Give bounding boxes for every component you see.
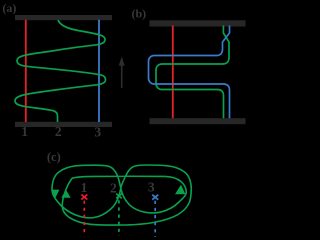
svg-text:2: 2 <box>55 124 62 139</box>
svg-text:(b): (b) <box>131 6 146 20</box>
svg-text:3: 3 <box>94 125 101 140</box>
svg-text:1: 1 <box>81 180 88 195</box>
svg-text:3: 3 <box>148 180 155 195</box>
svg-text:2: 2 <box>110 181 117 196</box>
svg-text:1: 1 <box>21 124 28 139</box>
svg-text:(c): (c) <box>47 150 61 164</box>
svg-text:(a): (a) <box>2 1 16 15</box>
